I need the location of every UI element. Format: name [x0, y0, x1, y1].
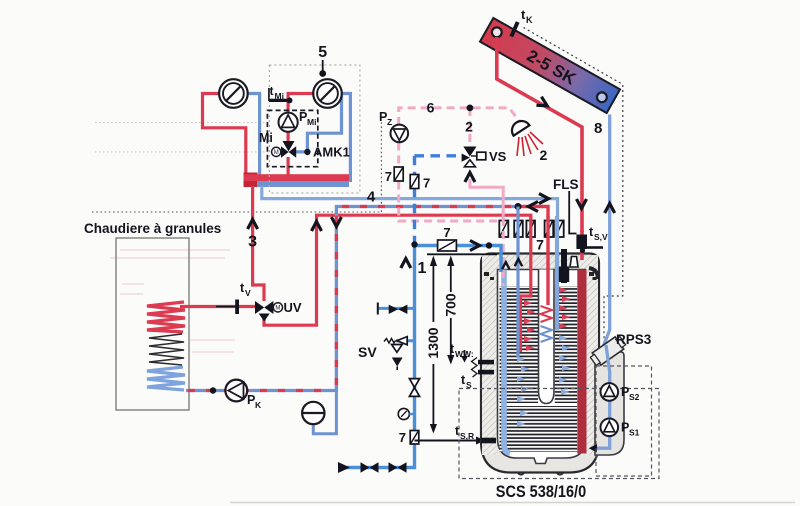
- svg-text:1: 1: [418, 260, 427, 277]
- svg-text:1300: 1300: [425, 327, 441, 358]
- svg-text:6: 6: [427, 100, 435, 116]
- svg-text:Mi: Mi: [275, 91, 284, 101]
- svg-text:Mi: Mi: [307, 117, 316, 127]
- svg-text:700: 700: [443, 293, 459, 317]
- svg-text:UV: UV: [284, 300, 302, 315]
- svg-text:Z: Z: [387, 117, 392, 127]
- svg-text:5: 5: [318, 44, 327, 61]
- svg-text:Chaudiere à granules: Chaudiere à granules: [84, 221, 221, 236]
- svg-text:7: 7: [399, 430, 406, 445]
- svg-text:SV: SV: [358, 344, 377, 360]
- svg-text:2: 2: [465, 119, 473, 135]
- svg-text:SCS 538/16/0: SCS 538/16/0: [496, 483, 586, 501]
- svg-text:V: V: [245, 288, 251, 298]
- svg-text:FLS: FLS: [553, 177, 579, 192]
- svg-text:VS: VS: [489, 149, 507, 164]
- svg-text:S,V: S,V: [594, 232, 608, 242]
- svg-text:7: 7: [423, 176, 430, 191]
- svg-text:S1: S1: [629, 428, 640, 438]
- svg-text:RPS3: RPS3: [616, 332, 652, 347]
- svg-text:8: 8: [594, 120, 602, 137]
- svg-text:2: 2: [540, 147, 548, 163]
- svg-text:M: M: [274, 150, 279, 156]
- svg-text:K: K: [255, 400, 262, 410]
- svg-text:M: M: [275, 306, 280, 312]
- svg-text:Mi: Mi: [259, 131, 273, 145]
- svg-text:7: 7: [443, 225, 450, 240]
- svg-text:AMK1: AMK1: [313, 145, 350, 160]
- svg-text:7: 7: [536, 237, 544, 253]
- svg-text:7: 7: [385, 169, 392, 184]
- svg-text:4: 4: [367, 189, 376, 206]
- svg-text:S2: S2: [629, 392, 640, 402]
- svg-text:S,R: S,R: [460, 431, 474, 441]
- svg-text:K: K: [526, 15, 533, 25]
- svg-text:3: 3: [248, 234, 257, 251]
- svg-text:t: t: [270, 84, 274, 98]
